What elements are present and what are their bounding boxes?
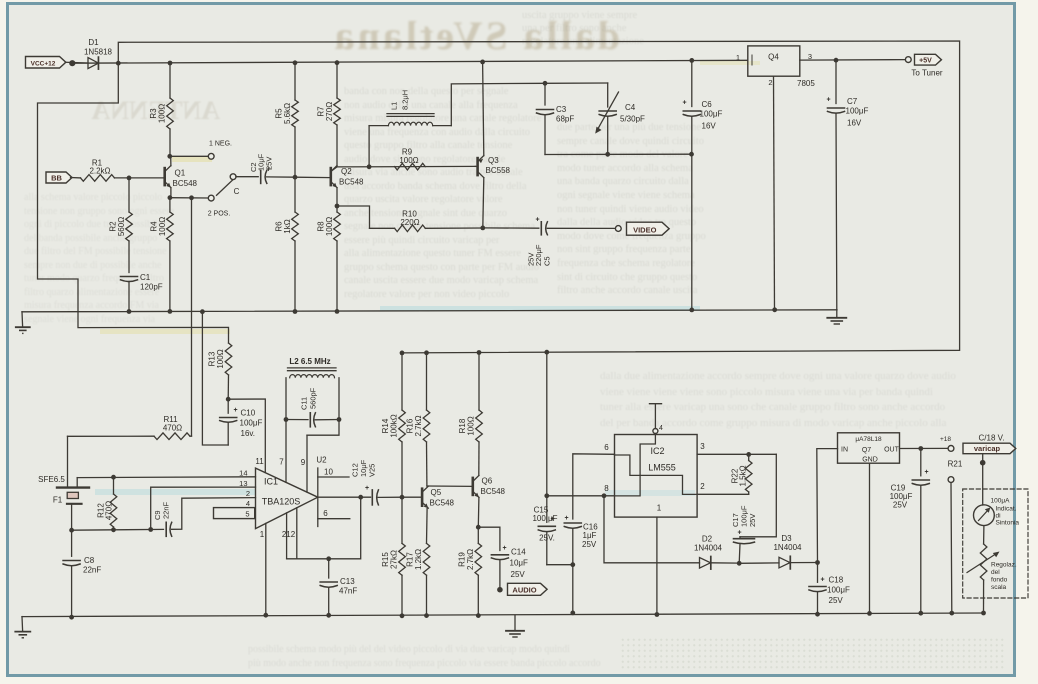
wire main +12V rail: [72, 60, 748, 63]
svg-text:AUDIO: AUDIO: [512, 586, 536, 595]
resistor R8 100ohm: [336, 206, 338, 212]
svg-text:2.7kΩ: 2.7kΩ: [414, 415, 423, 436]
node varicap output tag: [963, 443, 1016, 454]
resistor R11 470ohm: [68, 435, 155, 437]
wire tank box top: [545, 82, 608, 84]
pin 3 wire of IC2: [697, 453, 776, 455]
diode D1 1N5818: [88, 58, 98, 69]
wire bottom net to C9: [72, 529, 114, 531]
wire 7805 output: [800, 59, 906, 62]
node L2 right lead junction: [337, 417, 342, 422]
node IC2 supply junction: [544, 493, 549, 498]
svg-text:C4: C4: [625, 103, 636, 112]
svg-text:560pF: 560pF: [309, 387, 318, 409]
svg-text:25V.: 25V.: [539, 534, 555, 543]
svg-text:C13: C13: [340, 577, 355, 586]
node +5V output tag: [915, 54, 942, 65]
pin 4 terminal of IC2: [653, 429, 658, 434]
node R21 terminal: [948, 477, 954, 483]
IC2 inner staircase A (pin4 to pin8): [615, 435, 656, 496]
svg-text:C14: C14: [511, 548, 526, 557]
svg-text:27kΩ: 27kΩ: [390, 550, 399, 569]
svg-text:100μF: 100μF: [240, 419, 263, 428]
capacitor C12 10uF: [371, 490, 373, 505]
outer paper margins: [0, 0, 1038, 2]
svg-text:BC548: BC548: [481, 487, 506, 496]
svg-text:25V: 25V: [265, 157, 274, 170]
wire C11 right node to pin 9: [307, 420, 339, 436]
transistor Q5 BC548: [402, 496, 422, 498]
node C10 junction: [226, 397, 231, 402]
svg-text:scala: scala: [991, 584, 1007, 591]
wire IC1 output: [318, 496, 371, 498]
svg-text:C18: C18: [829, 576, 844, 585]
node junction dot D1 cathode: [116, 61, 121, 66]
resistor R2 560ohm: [128, 178, 130, 212]
svg-text:1μF: 1μF: [583, 531, 597, 540]
wire Q3 emitter to rail: [483, 62, 484, 156]
wire Q1 emitter to junction: [170, 188, 172, 198]
pins 3 12 below IC1: [286, 513, 288, 559]
svg-text:4: 4: [246, 499, 250, 508]
capacitor C16 1uF 25V: [564, 522, 581, 524]
svg-text:D2: D2: [702, 535, 713, 544]
svg-text:BB: BB: [51, 173, 62, 182]
svg-text:2: 2: [700, 482, 705, 491]
svg-text:Q3: Q3: [488, 156, 499, 165]
svg-text:1N4004: 1N4004: [773, 543, 802, 552]
wire to 1 NEG terminal: [170, 155, 208, 157]
svg-text:100μF: 100μF: [700, 110, 723, 119]
svg-text:8: 8: [604, 484, 609, 493]
svg-text:1.5kΩ: 1.5kΩ: [739, 465, 748, 486]
svg-text:2.2kΩ: 2.2kΩ: [89, 167, 110, 176]
svg-text:100μA: 100μA: [991, 498, 1011, 505]
wire meter tap: [982, 454, 984, 505]
pin 1 of IC1 to ground bus: [265, 523, 267, 615]
svg-text:100Ω: 100Ω: [467, 416, 476, 435]
svg-text:del: del: [991, 569, 1000, 576]
svg-text:47nF: 47nF: [339, 587, 357, 596]
svg-text:1: 1: [736, 53, 740, 62]
resistor R12 470ohm: [110, 494, 117, 527]
svg-text:+: +: [820, 577, 824, 584]
loop connecting pins 4-5 of IC1: [214, 508, 255, 519]
svg-text:di: di: [996, 513, 1001, 520]
svg-text:100Ω: 100Ω: [399, 156, 418, 165]
wire 7805 ground pin 2: [774, 76, 775, 310]
svg-text:1 NEG.: 1 NEG.: [209, 141, 232, 148]
svg-text:+: +: [924, 469, 928, 476]
resistor R4 100ohm: [169, 198, 171, 212]
node +5V terminal: [905, 57, 911, 63]
wire pin8 node down to D2: [604, 496, 700, 563]
wire Q5 emitter to R17: [426, 509, 429, 544]
wire Q2 collector to R9 and Q3 base: [337, 165, 475, 168]
svg-text:3: 3: [700, 442, 705, 451]
IC2 LM555 box: [615, 435, 698, 518]
capacitor C15 100uF 25V: [546, 496, 548, 523]
transistor Q6 BC548: [471, 478, 474, 495]
capacitor C7 100uF 16V: [834, 58, 839, 63]
node Q1 collector junction: [167, 154, 172, 159]
node D2 branch junction: [602, 493, 607, 498]
svg-text:VCC+12: VCC+12: [31, 60, 56, 67]
svg-text:C10: C10: [241, 409, 256, 418]
svg-text:OUT: OUT: [884, 447, 900, 454]
svg-text:1kΩ: 1kΩ: [283, 219, 292, 233]
svg-text:100μF: 100μF: [846, 107, 869, 116]
svg-text:C1: C1: [140, 273, 151, 282]
wire from D1 node down-left to lower-left feed: [38, 63, 229, 343]
wire pin3 to charge pump: [740, 454, 776, 537]
node terminal 2 POS.: [208, 195, 214, 201]
svg-text:D1: D1: [88, 38, 99, 47]
svg-text:+: +: [502, 545, 506, 552]
svg-text:16V: 16V: [702, 122, 717, 131]
svg-text:VIDEO: VIDEO: [633, 226, 657, 235]
node de-emphasis junction: [358, 495, 363, 500]
svg-text:16v.: 16v.: [241, 429, 256, 438]
svg-text:470Ω: 470Ω: [105, 501, 114, 520]
svg-text:GND: GND: [862, 457, 878, 464]
svg-text:C: C: [234, 187, 240, 196]
node +18 terminal: [948, 446, 954, 452]
node Q1 emitter junction: [168, 195, 173, 200]
svg-text:10: 10: [324, 468, 333, 477]
svg-text:100μF: 100μF: [827, 586, 850, 595]
wire C9 to pin2: [172, 498, 256, 530]
transistor Q2 BC548: [331, 167, 337, 172]
svg-text:+: +: [826, 97, 830, 104]
wire output to lower net: [287, 497, 361, 559]
wire to 2 POS terminal: [170, 197, 208, 199]
resistor R14 100kohm: [401, 353, 403, 410]
node Q5 base junction: [400, 495, 405, 500]
node VIDEO output tag: [627, 222, 670, 235]
meter M 100uA tuning indicator: [974, 505, 995, 526]
svg-text:U2: U2: [316, 455, 327, 464]
svg-text:100Ω: 100Ω: [158, 104, 167, 123]
node VCC+12 input tag: [26, 57, 66, 69]
svg-text:100Ω: 100Ω: [325, 217, 334, 236]
transistor Q3 BC558: [475, 165, 477, 167]
svg-text:varicap: varicap: [974, 444, 1001, 453]
dashed external indicator box: [963, 489, 1028, 598]
svg-text:5: 5: [245, 509, 249, 518]
node R5/R6 junction: [293, 175, 298, 180]
node AUDIO terminal: [497, 587, 503, 593]
svg-text:8.2μH: 8.2μH: [401, 90, 410, 110]
svg-text:BC548: BC548: [339, 178, 364, 187]
svg-text:SFE6.5: SFE6.5: [38, 475, 65, 484]
transistor Q1 BC548: [170, 156, 172, 166]
svg-text:BC548: BC548: [173, 179, 198, 188]
wire junction to IC1 pin 11: [228, 399, 265, 473]
wire emitter to R10: [337, 206, 370, 228]
node junction on 2 POS wire: [189, 195, 194, 200]
resistor R15 27kohm: [401, 497, 403, 543]
svg-text:C5: C5: [543, 256, 552, 266]
svg-text:C/18 V.: C/18 V.: [979, 434, 1005, 443]
node L1 junction on collector wire: [367, 164, 372, 169]
svg-text:F1: F1: [53, 496, 63, 505]
node L2 left lead junction: [284, 417, 289, 422]
wire mid ground bus: [22, 310, 837, 312]
svg-text:+: +: [233, 407, 237, 414]
resistor R3 100ohm: [168, 61, 173, 66]
node R12 bottom junction: [111, 527, 116, 532]
svg-text:100 μF: 100 μF: [532, 514, 557, 523]
wire Q2 emitter: [336, 188, 338, 206]
node R22 top junction: [746, 452, 751, 457]
svg-text:5.6kΩ: 5.6kΩ: [283, 103, 292, 124]
wire upper +12V unregulated rail: [118, 41, 959, 353]
capacitor C19 100uF 25V: [920, 449, 922, 476]
svg-text:Q1: Q1: [175, 169, 186, 178]
wire pump output to regulator IN: [817, 449, 838, 563]
svg-text:10μF: 10μF: [510, 559, 529, 568]
wire pin13 riser: [151, 487, 256, 529]
svg-text:+5V: +5V: [919, 58, 932, 65]
capacitor C5 220uF 25V: [483, 227, 539, 229]
pin 2 wire of IC2: [697, 493, 749, 495]
svg-text:IN: IN: [841, 447, 848, 454]
resistor R1 2.2kohm: [81, 175, 115, 182]
op-amp IC1 TBA120S triangle: [256, 468, 318, 528]
svg-text:Q5: Q5: [431, 488, 442, 497]
node R2 junction on base wire: [127, 176, 132, 181]
svg-text:μA78L18: μA78L18: [855, 436, 882, 443]
svg-text:IC2: IC2: [650, 446, 664, 456]
ground left end of mid bus: [21, 312, 24, 327]
resistor R17 1.2kohm: [423, 543, 430, 575]
svg-text:14: 14: [239, 469, 247, 478]
node C16 bottom junction: [570, 562, 575, 567]
capacitor C1 120pF: [128, 241, 130, 273]
wire Q5 collector to Q6 base: [427, 485, 473, 487]
svg-text:LM555: LM555: [648, 463, 676, 473]
capacitor C17 100uF 25V: [739, 537, 741, 538]
resistor R6 1kohm: [294, 177, 296, 212]
inductor L1 8.2uH: [368, 126, 370, 167]
wire OUT of 78L18: [900, 447, 949, 449]
svg-text:C3: C3: [556, 105, 567, 114]
node R12 top junction: [111, 475, 116, 480]
svg-text:R21: R21: [948, 460, 963, 469]
svg-text:1: 1: [657, 504, 662, 513]
svg-text:212: 212: [282, 530, 296, 539]
capacitor C4 5/30pF trimmer: [607, 83, 609, 107]
wire supply to pin 8: [547, 495, 615, 497]
node terminal 1 NEG.: [208, 153, 214, 159]
svg-text:Q2: Q2: [341, 167, 352, 176]
potentiometer full-scale adjust: [980, 544, 987, 580]
regulator Q4 7805 box: [748, 46, 800, 76]
capacitor C11 560pF: [286, 419, 308, 421]
svg-text:+: +: [365, 485, 369, 492]
regulator U uA78L18 box: [838, 433, 900, 463]
pin 10 stub of IC1: [318, 476, 349, 478]
IC1 output bar: [317, 468, 319, 527]
svg-text:+: +: [682, 100, 686, 107]
wire GND pin of 78L18: [869, 463, 871, 613]
node C13 junction: [326, 556, 331, 561]
node Q6 emitter node: [476, 525, 481, 530]
svg-text:Regolaz.: Regolaz.: [991, 562, 1017, 569]
ground left end of bottom bus: [21, 617, 24, 631]
node AUDIO output tag: [508, 583, 548, 595]
wire meter to pot: [983, 526, 985, 544]
resistor R16 2.7kohm: [426, 353, 428, 410]
svg-text:BC558: BC558: [486, 166, 511, 175]
node pin13 riser junction: [148, 527, 153, 532]
node meter tap dot: [980, 460, 986, 466]
wire lower +12V distribution: [400, 351, 405, 356]
svg-text:25V: 25V: [582, 540, 597, 549]
svg-text:V25: V25: [368, 464, 377, 477]
svg-text:25V: 25V: [829, 596, 844, 605]
svg-text:fondo: fondo: [991, 577, 1008, 584]
node filter output junction: [69, 528, 74, 533]
wire L1 to tank top: [451, 83, 545, 125]
resistor R9 100ohm: [370, 227, 395, 229]
node switch pole C: [230, 174, 236, 180]
wire pot to ground bus: [983, 580, 985, 613]
wire bottom ground bus: [22, 613, 984, 617]
switch arm from C pole: [217, 180, 234, 196]
wire C10 bottom loop to mid bus: [202, 312, 228, 445]
resistor R10 220ohm: [395, 225, 426, 232]
capacitor C6 100uF 16V: [689, 58, 694, 63]
svg-text:C8: C8: [84, 556, 95, 565]
svg-text:13: 13: [239, 479, 247, 488]
resistor R13 100ohm: [225, 343, 232, 375]
svg-text:6: 6: [604, 443, 609, 452]
wire Q3 collector to video node: [483, 178, 484, 228]
svg-text:100kΩ: 100kΩ: [390, 414, 399, 437]
resistor R7 270ohm: [335, 60, 340, 65]
resistor R22 1.5kohm: [748, 454, 750, 460]
svg-text:120pF: 120pF: [140, 283, 163, 292]
svg-text:100Ω: 100Ω: [216, 349, 225, 368]
capacitor C8 22nF: [71, 530, 73, 556]
svg-text:9: 9: [301, 458, 306, 467]
svg-text:Q7: Q7: [862, 447, 871, 454]
capacitor C13 47nF: [328, 559, 330, 578]
pin 1 of IC2 to ground: [656, 517, 658, 614]
svg-text:+18: +18: [940, 436, 951, 443]
svg-text:5/30pF: 5/30pF: [620, 115, 645, 124]
svg-text:IC1: IC1: [264, 477, 278, 487]
svg-text:2: 2: [768, 78, 772, 87]
svg-text:Q4: Q4: [768, 53, 779, 62]
node Q2 emitter junction: [335, 204, 340, 209]
svg-text:2.7kΩ: 2.7kΩ: [466, 549, 475, 570]
svg-text:560Ω: 560Ω: [117, 217, 126, 236]
svg-text:C7: C7: [847, 97, 858, 106]
node C19 junction: [918, 446, 923, 451]
svg-text:1: 1: [260, 530, 265, 539]
svg-text:270Ω: 270Ω: [325, 102, 334, 121]
svg-text:Q6: Q6: [482, 477, 493, 486]
capacitor C2 10uF 25V: [236, 176, 258, 178]
wire C15 bottom to C16 bottom: [547, 564, 573, 566]
svg-text:D3: D3: [781, 534, 792, 543]
svg-text:2 POS.: 2 POS.: [208, 211, 231, 218]
pin 9 of IC1: [306, 435, 308, 492]
node junction dot after VCC tag: [69, 60, 75, 66]
svg-text:68pF: 68pF: [556, 115, 574, 124]
svg-text:220Ω: 220Ω: [400, 218, 419, 227]
trimmer arrow C4: [598, 92, 619, 130]
svg-text:L2 6.5 MHz: L2 6.5 MHz: [289, 357, 330, 366]
ground on bottom bus at x=515: [514, 615, 516, 630]
node BB input tag: [46, 172, 72, 183]
svg-text:6: 6: [323, 509, 328, 518]
wire switch common node down to R11: [191, 198, 193, 436]
svg-text:BC548: BC548: [430, 499, 455, 508]
pin 7 of IC1: [285, 420, 287, 483]
svg-text:+: +: [535, 217, 539, 224]
svg-text:100Ω: 100Ω: [158, 217, 167, 236]
svg-text:2: 2: [246, 489, 250, 498]
capacitor C9 22nF: [165, 522, 167, 536]
capacitor C10 100uF 16v: [227, 399, 229, 413]
svg-text:1N5818: 1N5818: [84, 48, 113, 57]
svg-text:To Tuner: To Tuner: [911, 69, 942, 78]
svg-text:1N4004: 1N4004: [694, 544, 723, 553]
svg-text:Indicat.: Indicat.: [996, 506, 1017, 513]
svg-text:+: +: [737, 530, 741, 537]
node VIDEO terminal: [615, 226, 621, 232]
capacitor C14 10uF 25V: [478, 527, 500, 550]
svg-text:Sintonia: Sintonia: [996, 520, 1020, 527]
svg-text:22nF: 22nF: [83, 566, 101, 575]
svg-text:1.2kΩ: 1.2kΩ: [414, 549, 423, 570]
svg-text:C11: C11: [300, 397, 309, 410]
svg-text:7: 7: [279, 458, 284, 467]
svg-text:470Ω: 470Ω: [163, 424, 182, 433]
node C17/D3 junction: [711, 562, 739, 564]
svg-text:C6: C6: [702, 100, 713, 109]
wire Q6 emitter junction: [477, 498, 480, 528]
svg-text:7805: 7805: [797, 79, 815, 88]
wire pin14 net from filter: [77, 476, 255, 479]
pin 6 stub of IC1: [318, 518, 350, 520]
svg-text:25V: 25V: [748, 514, 757, 527]
capacitor C3 68pF tank: [543, 81, 548, 86]
svg-text:25V: 25V: [893, 501, 908, 510]
capacitor C18 100uF 25V: [817, 563, 819, 583]
svg-text:4: 4: [659, 425, 663, 432]
ground right end of mid bus: [836, 310, 838, 317]
resistor R5 5.6kohm: [293, 60, 298, 65]
wire tank box bottom: [545, 153, 692, 155]
IC2 inner staircase B (pin6 to pin2): [615, 455, 698, 494]
wire +12 drop to IC2 supply node: [546, 352, 548, 496]
ceramic filter F1 SFE6.5: [67, 436, 69, 487]
diode D2 1N4004: [700, 558, 711, 569]
svg-text:25V: 25V: [511, 570, 526, 579]
svg-text:16V: 16V: [847, 119, 862, 128]
resistor R18 100ohm: [478, 353, 480, 411]
svg-text:+: +: [564, 515, 568, 522]
svg-text:L1: L1: [390, 102, 399, 110]
node C18 junction: [815, 560, 820, 565]
node video junction: [480, 226, 485, 231]
svg-text:11: 11: [255, 457, 264, 466]
